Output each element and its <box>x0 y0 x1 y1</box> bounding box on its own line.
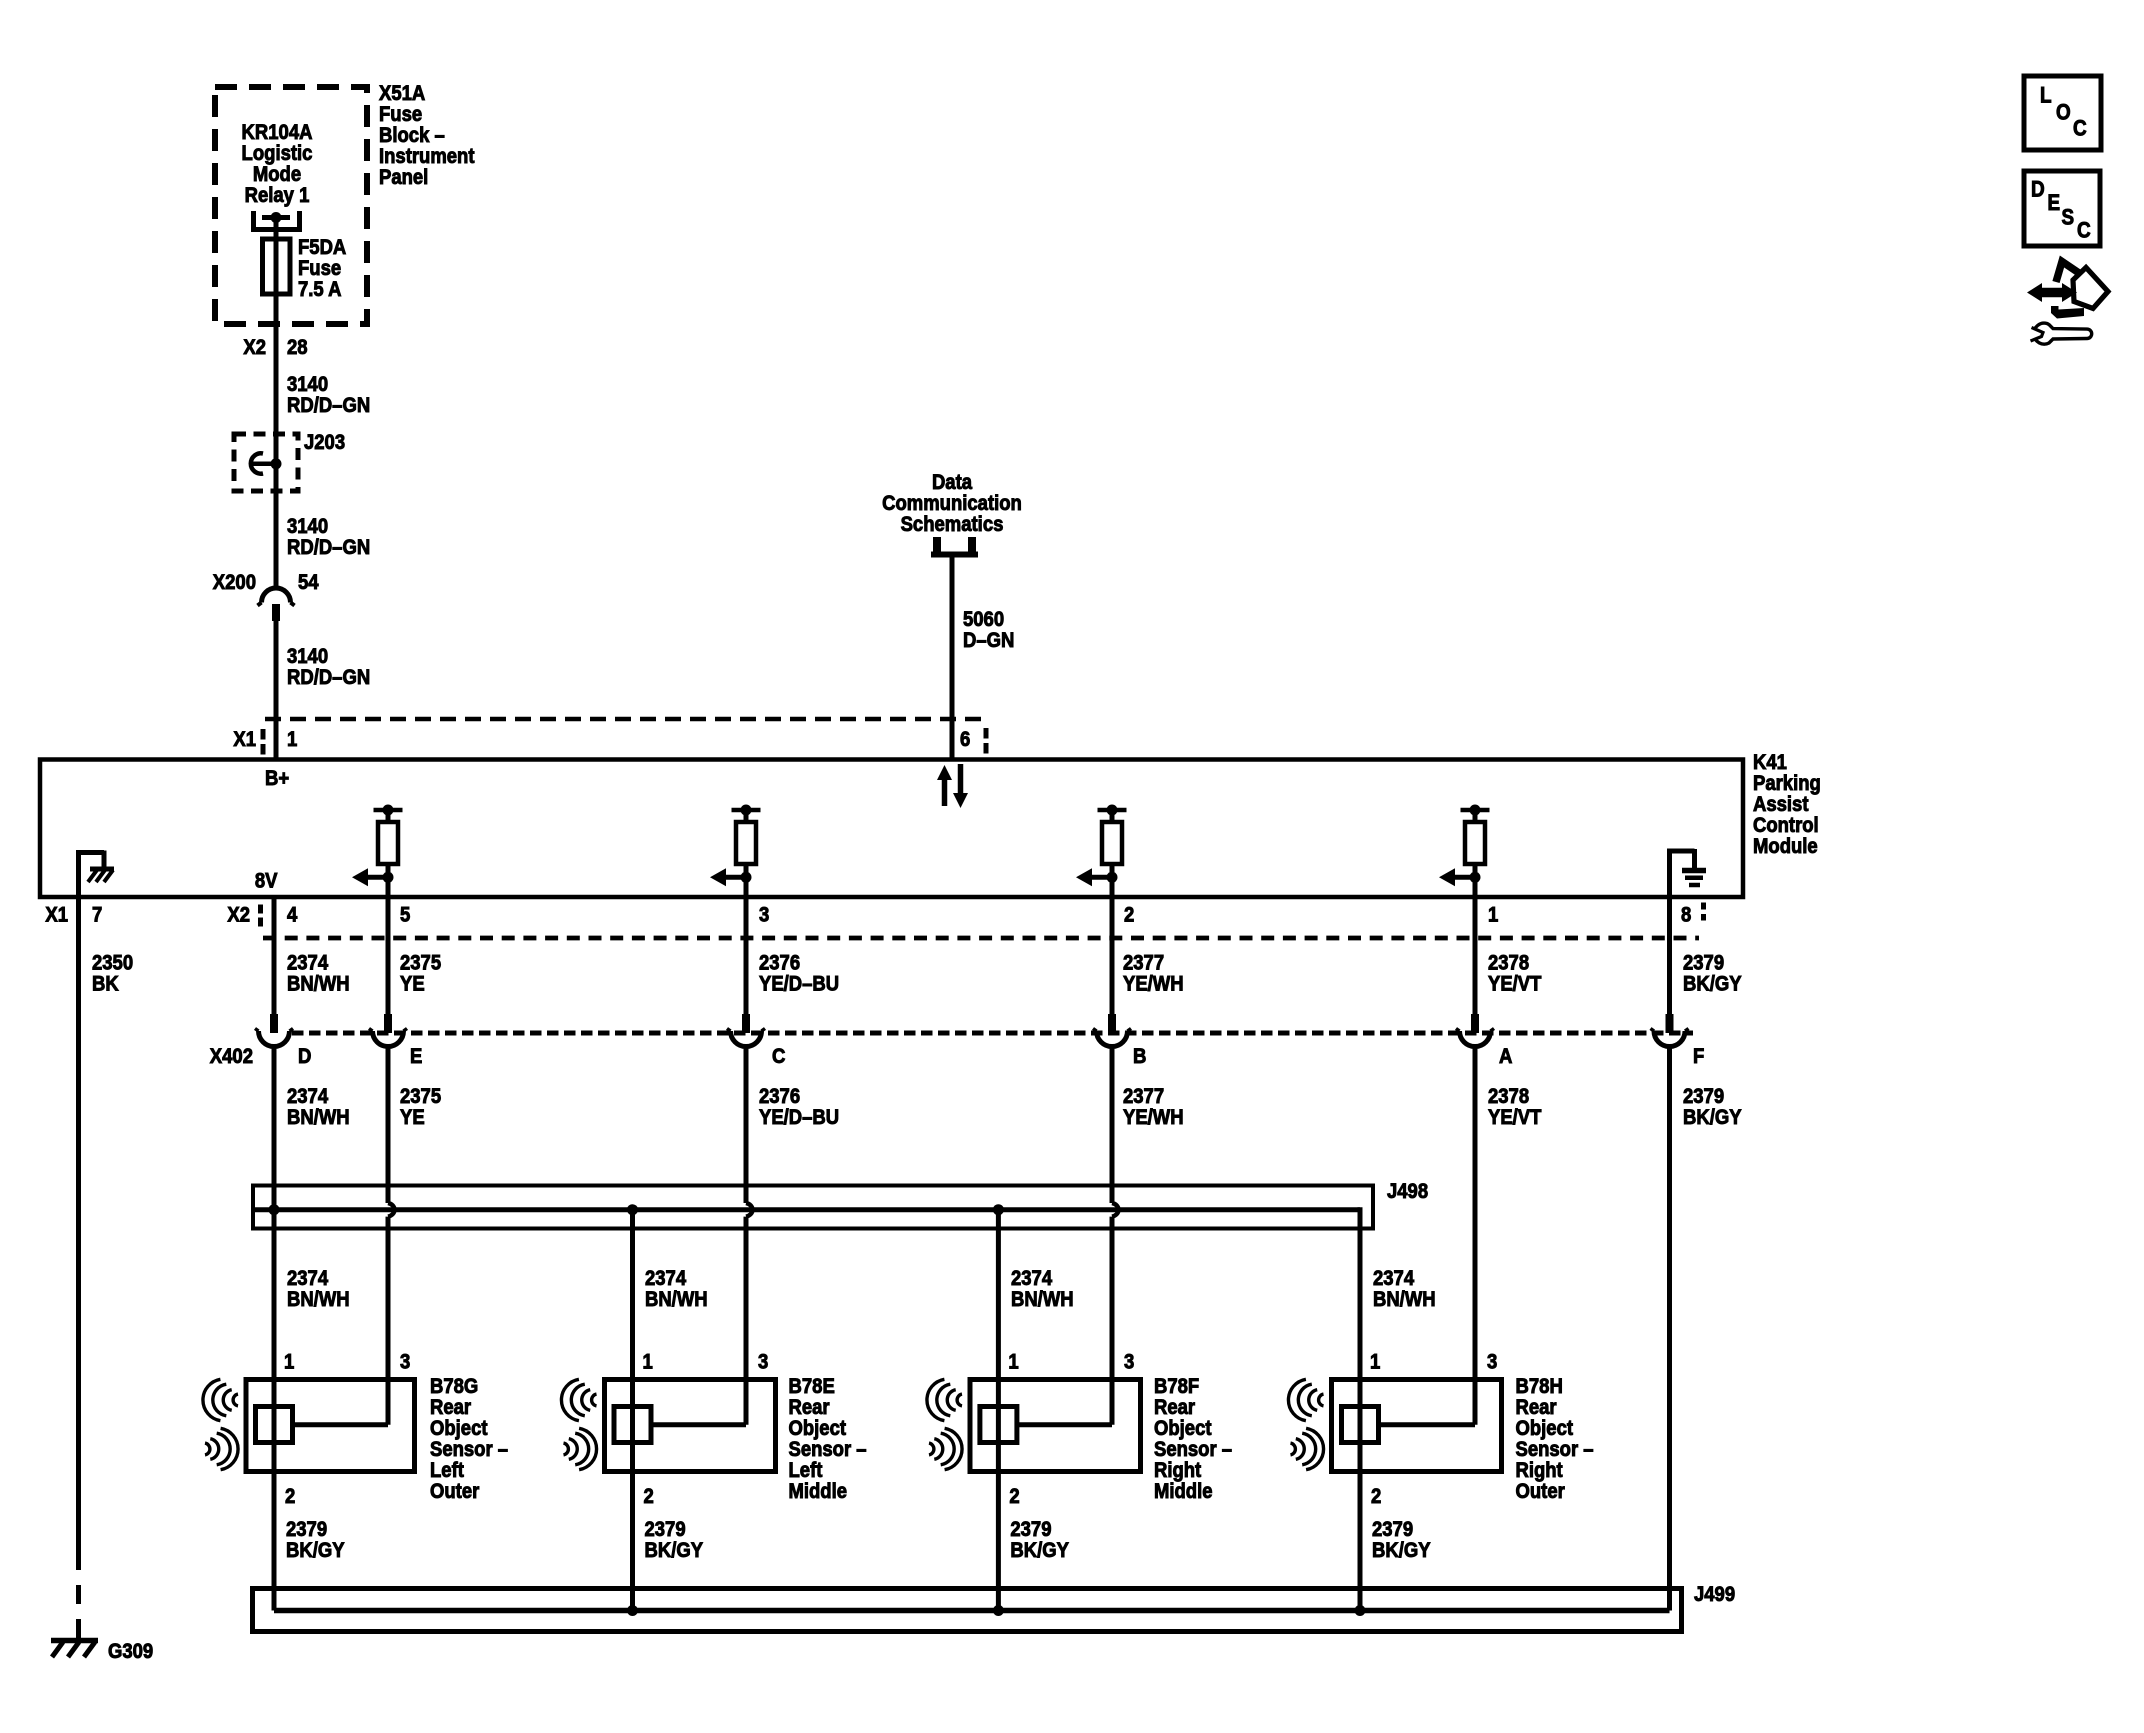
svg-text:YE/VT: YE/VT <box>1488 972 1541 996</box>
svg-text:7: 7 <box>92 903 102 927</box>
svg-text:BK/GY: BK/GY <box>1010 1538 1069 1562</box>
svg-text:D: D <box>298 1044 311 1068</box>
svg-text:E: E <box>410 1044 422 1068</box>
svg-text:YE/WH: YE/WH <box>1123 1105 1184 1129</box>
svg-text:4: 4 <box>287 903 297 927</box>
svg-text:BN/WH: BN/WH <box>287 1287 350 1311</box>
svg-text:BK/GY: BK/GY <box>1683 972 1742 996</box>
svg-text:C: C <box>2073 115 2087 140</box>
svg-text:O: O <box>2056 99 2071 124</box>
svg-text:X1: X1 <box>45 903 68 927</box>
svg-text:Outer: Outer <box>430 1479 480 1503</box>
svg-text:A: A <box>1499 1044 1512 1068</box>
svg-text:D: D <box>2031 176 2045 201</box>
svg-text:BN/WH: BN/WH <box>287 972 350 996</box>
svg-text:8V: 8V <box>255 869 278 893</box>
svg-text:X2: X2 <box>243 335 266 359</box>
svg-text:J498: J498 <box>1387 1179 1428 1203</box>
svg-text:Schematics: Schematics <box>901 512 1004 536</box>
svg-text:BN/WH: BN/WH <box>1011 1287 1074 1311</box>
svg-text:X200: X200 <box>213 570 256 594</box>
svg-text:BN/WH: BN/WH <box>645 1287 708 1311</box>
svg-text:54: 54 <box>298 570 319 594</box>
svg-text:X1: X1 <box>233 727 256 751</box>
svg-text:RD/D–GN: RD/D–GN <box>287 393 370 417</box>
svg-text:YE: YE <box>400 972 425 996</box>
svg-text:YE/WH: YE/WH <box>1123 972 1184 996</box>
svg-text:X402: X402 <box>210 1044 253 1068</box>
svg-text:1: 1 <box>1008 1350 1018 1374</box>
svg-text:RD/D–GN: RD/D–GN <box>287 665 370 689</box>
svg-text:3: 3 <box>759 903 769 927</box>
svg-text:RD/D–GN: RD/D–GN <box>287 535 370 559</box>
svg-text:2: 2 <box>1124 903 1134 927</box>
svg-text:1: 1 <box>1488 903 1498 927</box>
svg-text:2: 2 <box>644 1484 654 1508</box>
svg-text:J499: J499 <box>1694 1582 1735 1606</box>
svg-text:D–GN: D–GN <box>963 628 1014 652</box>
svg-text:28: 28 <box>287 335 308 359</box>
svg-text:YE/D–BU: YE/D–BU <box>759 1105 839 1129</box>
svg-text:2: 2 <box>1371 1484 1381 1508</box>
svg-text:S: S <box>2062 204 2075 229</box>
svg-text:J203: J203 <box>304 430 345 454</box>
svg-text:C: C <box>772 1044 785 1068</box>
svg-text:1: 1 <box>1370 1350 1380 1374</box>
svg-text:BK/GY: BK/GY <box>286 1538 345 1562</box>
svg-text:B: B <box>1133 1044 1146 1068</box>
svg-text:F: F <box>1693 1044 1704 1068</box>
svg-text:Panel: Panel <box>379 165 428 189</box>
svg-text:BK/GY: BK/GY <box>1683 1105 1742 1129</box>
svg-text:BK/GY: BK/GY <box>1372 1538 1431 1562</box>
svg-text:YE/D–BU: YE/D–BU <box>759 972 839 996</box>
svg-text:BN/WH: BN/WH <box>287 1105 350 1129</box>
svg-text:Middle: Middle <box>789 1479 848 1503</box>
svg-text:B+: B+ <box>265 766 289 790</box>
svg-text:C: C <box>2077 217 2091 242</box>
svg-text:Module: Module <box>1753 834 1818 858</box>
svg-text:BN/WH: BN/WH <box>1373 1287 1436 1311</box>
svg-text:2: 2 <box>1009 1484 1019 1508</box>
svg-text:BK/GY: BK/GY <box>645 1538 704 1562</box>
svg-text:3: 3 <box>400 1350 410 1374</box>
svg-text:7.5 A: 7.5 A <box>298 277 342 301</box>
svg-text:Middle: Middle <box>1154 1479 1213 1503</box>
svg-text:3: 3 <box>758 1350 768 1374</box>
svg-text:8: 8 <box>1681 903 1691 927</box>
svg-text:1: 1 <box>643 1350 653 1374</box>
svg-text:6: 6 <box>960 727 970 751</box>
svg-text:5: 5 <box>400 903 410 927</box>
svg-text:2: 2 <box>285 1484 295 1508</box>
svg-text:Outer: Outer <box>1516 1479 1566 1503</box>
svg-text:1: 1 <box>284 1350 294 1374</box>
svg-text:X2: X2 <box>227 903 250 927</box>
svg-text:E: E <box>2048 190 2061 215</box>
svg-text:L: L <box>2040 82 2052 107</box>
svg-text:Relay 1: Relay 1 <box>245 183 310 207</box>
svg-text:G309: G309 <box>108 1639 153 1663</box>
svg-text:BK: BK <box>92 972 119 996</box>
svg-text:YE/VT: YE/VT <box>1488 1105 1541 1129</box>
svg-text:3: 3 <box>1487 1350 1497 1374</box>
svg-text:YE: YE <box>400 1105 425 1129</box>
svg-text:3: 3 <box>1124 1350 1134 1374</box>
svg-text:1: 1 <box>287 727 297 751</box>
